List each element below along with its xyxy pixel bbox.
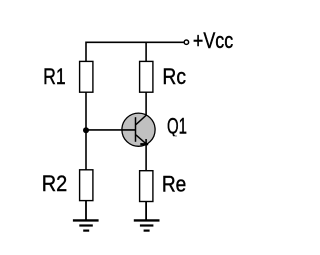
- svg-text:Q1: Q1: [167, 114, 187, 139]
- resistor Re: [140, 171, 153, 202]
- svg-text:R2: R2: [42, 171, 67, 196]
- terminal +Vcc open circle: [184, 40, 188, 44]
- svg-text:+Vcc: +Vcc: [193, 28, 233, 53]
- wire R1 to base node: [85, 92, 87, 130]
- wire R2 to ground: [85, 201, 87, 221]
- svg-text:R1: R1: [43, 64, 66, 89]
- wire emitter to Re: [145, 139, 147, 171]
- ground under Re: [134, 220, 160, 230]
- node junction dot: [83, 127, 89, 133]
- resistor R2: [80, 170, 93, 201]
- ground under R2: [73, 220, 99, 230]
- wire Re to ground: [145, 202, 147, 221]
- wire base node to R2: [85, 130, 87, 170]
- svg-text:Re: Re: [162, 172, 186, 197]
- wire rail to R1: [85, 42, 87, 62]
- transistor Q1: [122, 113, 155, 146]
- wire Rc to collector: [145, 92, 147, 115]
- wire rail to Rc: [145, 42, 147, 62]
- wire Vcc rail: [86, 41, 184, 43]
- wire base: [86, 129, 136, 131]
- label Q1: [167, 114, 187, 139]
- resistor R1: [80, 61, 93, 92]
- svg-text:Rc: Rc: [162, 64, 186, 89]
- resistor Rc: [140, 61, 153, 92]
